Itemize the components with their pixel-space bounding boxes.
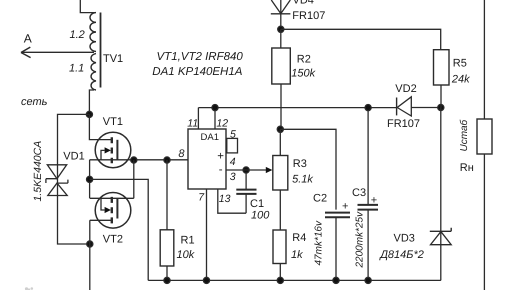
- wire pins 11/12 top rail: [198, 107, 396, 109]
- zener VD3: [430, 228, 451, 232]
- resistor R2: [280, 29, 282, 48]
- svg-text:1.5KE440CA: 1.5KE440CA: [32, 141, 44, 202]
- svg-text:A: A: [24, 32, 32, 46]
- svg-text:R5: R5: [453, 58, 467, 70]
- svg-text:11: 11: [187, 117, 198, 129]
- transistor VT2: [95, 193, 131, 229]
- node bus pin7: [203, 277, 209, 283]
- wire source node to bottom bus: [90, 179, 149, 280]
- svg-text:VT2: VT2: [103, 233, 123, 245]
- transformer TV1 winding 1.1: [91, 54, 96, 90]
- svg-text:VD2: VD2: [395, 83, 416, 95]
- svg-text:C1: C1: [250, 198, 264, 210]
- svg-text:Д814Б*2: Д814Б*2: [378, 249, 424, 261]
- node bus C2: [333, 277, 339, 283]
- capacitor C1: [245, 170, 247, 213]
- svg-text:1.2: 1.2: [70, 29, 85, 41]
- pin 7 lead: [206, 189, 208, 280]
- wire VT1 source / gate line to DA1 pin 8: [90, 159, 188, 161]
- wire VD2 node down through VD3 to bus: [440, 108, 442, 281]
- arrowhead A: [21, 47, 31, 58]
- svg-text:R2: R2: [297, 54, 311, 66]
- wire VT1 drain: [89, 114, 111, 139]
- node bus C3: [365, 277, 371, 283]
- capacitor C2: [325, 213, 350, 218]
- svg-text:R3: R3: [293, 158, 307, 170]
- smudge artifacts bottom left: [25, 287, 33, 290]
- svg-text:VD1: VD1: [63, 151, 84, 163]
- svg-text:5.1k: 5.1k: [292, 174, 313, 186]
- svg-text:Uстаб: Uстаб: [459, 119, 470, 151]
- svg-text:-: -: [219, 164, 223, 176]
- wire VT1 source down: [89, 160, 91, 199]
- svg-text:8: 8: [178, 148, 185, 160]
- diode VD2: [396, 98, 398, 116]
- svg-text:2200mk*25v: 2200mk*25v: [355, 211, 366, 269]
- svg-text:150k: 150k: [291, 68, 315, 80]
- wire mains down: [89, 244, 91, 290]
- svg-text:1.1: 1.1: [69, 63, 84, 75]
- pin 13 lead and wire to C1: [218, 189, 246, 213]
- wire VD1 bottom: [58, 196, 90, 245]
- svg-text:12: 12: [216, 117, 228, 129]
- node VD2/R5/VD3: [438, 104, 444, 110]
- svg-text:+: +: [342, 201, 348, 213]
- pin 12 lead: [214, 108, 216, 129]
- load line Rn: [483, 0, 485, 119]
- wire pin 3 to R3 wiper: [226, 169, 266, 171]
- svg-text:47mk*16v: 47mk*16v: [314, 220, 325, 265]
- resistor R4: [273, 230, 286, 264]
- transformer TV1 primary lead: [80, 0, 95, 13]
- svg-text:7: 7: [198, 192, 205, 204]
- node R2/R3/C2: [277, 126, 283, 132]
- wire tap A: [21, 51, 94, 53]
- DA1 box: [188, 129, 226, 189]
- node bus R4: [277, 277, 283, 283]
- svg-text:Rн: Rн: [460, 162, 474, 174]
- svg-text:VT1,VT2 IRF840: VT1,VT2 IRF840: [157, 51, 244, 63]
- wire node to C2: [280, 129, 336, 209]
- node bus R1: [164, 277, 170, 283]
- wire node to VD1: [58, 114, 90, 195]
- potentiometer R3: [279, 129, 281, 155]
- node VT1 source / VT2: [87, 176, 93, 182]
- node C3 top: [365, 105, 371, 111]
- svg-text:сеть: сеть: [21, 96, 48, 108]
- svg-text:C2: C2: [313, 193, 327, 205]
- svg-text:1k: 1k: [291, 249, 303, 261]
- wire VT2 drain: [90, 220, 111, 244]
- resistor R1: [166, 160, 168, 230]
- svg-text:C3: C3: [352, 187, 366, 199]
- svg-text:DA1: DA1: [201, 132, 219, 143]
- node gates: [131, 157, 137, 163]
- node transformer/VD1/VT1: [86, 111, 92, 117]
- svg-text:5: 5: [230, 128, 236, 140]
- svg-text:VT1: VT1: [103, 116, 123, 128]
- svg-text:13: 13: [219, 193, 231, 205]
- transformer TV1 core: [100, 13, 102, 88]
- bottom bus: [148, 279, 441, 281]
- svg-text:VD4: VD4: [293, 0, 314, 7]
- capacitor C3: [367, 108, 369, 205]
- wire winding bottom to node: [89, 90, 94, 114]
- svg-text:4: 4: [230, 156, 236, 168]
- top diode VD4: [271, 0, 290, 14]
- resistor R5: [434, 50, 450, 85]
- node VD1/VT2/mains: [87, 241, 93, 247]
- transformer TV1 winding 1.2: [90, 13, 96, 52]
- TVS diode VD1: [46, 165, 68, 196]
- transistor VT1: [95, 132, 131, 168]
- svg-text:R4: R4: [292, 232, 306, 244]
- svg-text:3: 3: [230, 171, 236, 183]
- wire gates to VT2 gate: [133, 160, 135, 198]
- pin 5 resistor box: [227, 138, 238, 153]
- svg-text:24k: 24k: [451, 73, 470, 85]
- svg-text:+: +: [217, 151, 224, 163]
- wire top rail to R5: [281, 29, 441, 49]
- node top rail: [278, 26, 284, 32]
- svg-text:10k: 10k: [177, 249, 195, 261]
- svg-text:100: 100: [251, 209, 270, 221]
- svg-text:DA1 KP140EH1A: DA1 KP140EH1A: [152, 66, 242, 78]
- pin 11 lead: [197, 108, 199, 129]
- svg-text:VD3: VD3: [394, 233, 415, 245]
- svg-text:FR107: FR107: [387, 118, 420, 130]
- arrowhead R3 wiper: [266, 167, 273, 173]
- svg-text:R1: R1: [181, 234, 195, 246]
- node pin12: [212, 105, 218, 111]
- wire VT2 source line: [90, 197, 134, 199]
- node R1 top: [164, 157, 170, 163]
- svg-text:+: +: [371, 195, 377, 207]
- node C1 top: [243, 167, 249, 173]
- svg-text:TV1: TV1: [103, 53, 123, 65]
- svg-text:FR107: FR107: [292, 10, 325, 22]
